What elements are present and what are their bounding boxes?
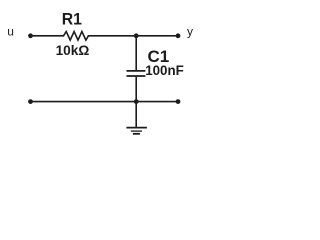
node junction dot bottom — [134, 99, 139, 104]
ground symbol — [126, 128, 146, 134]
svg-text:10kΩ: 10kΩ — [56, 42, 90, 58]
capacitor C1 bottom plate — [127, 75, 146, 77]
node y endpoint dot — [176, 33, 181, 38]
node u endpoint dot — [28, 33, 33, 38]
node junction dot top (output node) — [134, 33, 139, 38]
resistor R1 reference label — [62, 10, 82, 29]
wire top rail with resistor R1 zigzag — [31, 32, 179, 41]
resistor R1 value label 10kΩ — [56, 42, 90, 58]
svg-text:R1: R1 — [62, 10, 82, 29]
svg-text:y: y — [187, 25, 193, 39]
capacitor C1 top plate — [127, 70, 146, 72]
bottom rail left endpoint dot — [28, 99, 33, 104]
svg-text:100nF: 100nF — [145, 63, 184, 78]
capacitor C1 value label 100nF — [145, 63, 184, 78]
wire from top node to capacitor C1 top plate — [135, 36, 137, 70]
svg-text:u: u — [7, 25, 14, 39]
bottom rail right endpoint dot — [176, 99, 181, 104]
wire bottom rail — [31, 101, 179, 103]
wire from capacitor C1 bottom plate through bottom rail to ground — [135, 77, 137, 128]
